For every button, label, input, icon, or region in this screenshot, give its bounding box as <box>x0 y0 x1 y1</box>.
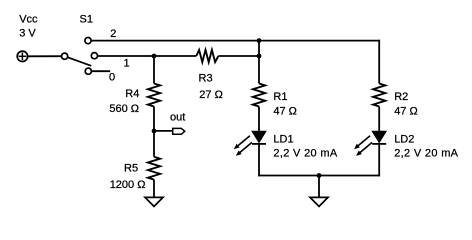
svg-text:LD1: LD1 <box>273 133 293 145</box>
wire LD2 to bottom rail <box>378 144 380 177</box>
svg-text:R4: R4 <box>125 88 139 100</box>
wire R2 to LD2 <box>378 107 380 132</box>
svg-text:R1: R1 <box>273 91 287 103</box>
resistor R3 <box>196 50 218 62</box>
wire R3 to mid junction <box>218 55 259 57</box>
svg-text:1200 Ω: 1200 Ω <box>110 179 146 191</box>
svg-text:Vcc: Vcc <box>19 14 38 26</box>
switch S1 contact 2 <box>85 38 91 44</box>
resistor R1 <box>253 84 265 107</box>
LED LD2 <box>354 131 386 156</box>
wire contact 1 to R3 <box>98 55 197 57</box>
svg-text:560 Ω: 560 Ω <box>109 103 139 115</box>
wire out stub <box>154 130 172 132</box>
switch S1 contact 0 <box>85 68 91 74</box>
junction dot at mid row <box>257 54 262 59</box>
junction dot at out node <box>152 129 157 134</box>
pin out <box>173 128 185 134</box>
svg-text:3 V: 3 V <box>19 28 36 40</box>
svg-text:LD2: LD2 <box>394 134 414 146</box>
ground symbol (left) <box>145 197 163 206</box>
junction dot at R4 top <box>152 54 157 59</box>
svg-text:2,2 V 20 mA: 2,2 V 20 mA <box>273 147 337 159</box>
wire contact 2 to top-right corner <box>91 40 379 42</box>
bottom rail wire <box>259 175 379 177</box>
resistor R5 <box>148 157 160 180</box>
resistor R2 <box>373 84 385 107</box>
junction dot at mid top <box>257 38 262 43</box>
svg-text:47 Ω: 47 Ω <box>394 106 418 118</box>
wire rail to ground <box>318 176 320 198</box>
svg-text:R2: R2 <box>394 91 408 103</box>
wire contact 0 stub <box>91 70 110 72</box>
switch S1 pivot contact <box>62 53 68 59</box>
switch S1 blade <box>65 56 92 66</box>
svg-text:2,2 V 20 mA: 2,2 V 20 mA <box>394 147 458 159</box>
ground symbol (right) <box>310 197 328 206</box>
svg-text:47 Ω: 47 Ω <box>273 106 297 118</box>
wire source to switch pivot <box>28 55 65 57</box>
resistor R4 <box>148 84 160 107</box>
wire LD1 to bottom rail <box>258 144 260 177</box>
switch S1 contact 1 <box>91 53 97 59</box>
wire R1 to LD1 <box>258 107 260 132</box>
svg-text:27 Ω: 27 Ω <box>199 89 223 101</box>
svg-text:out: out <box>170 112 185 124</box>
wire top-right corner down to R2 <box>378 40 380 84</box>
wire junction down to R4 <box>153 56 155 84</box>
LED LD1 <box>234 131 266 156</box>
wire R4 to out node <box>153 107 155 157</box>
svg-text:1: 1 <box>124 58 130 70</box>
voltage source V1 (Vcc) <box>17 51 27 61</box>
wire mid vertical top segment <box>258 41 260 84</box>
wire R5 to ground <box>153 180 155 198</box>
svg-text:R5: R5 <box>124 163 138 175</box>
svg-text:0: 0 <box>109 71 115 83</box>
svg-text:R3: R3 <box>199 73 213 85</box>
junction dot bottom rail <box>317 173 322 178</box>
svg-text:S1: S1 <box>80 14 93 26</box>
svg-text:2: 2 <box>110 28 116 40</box>
